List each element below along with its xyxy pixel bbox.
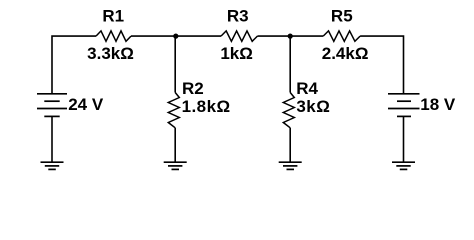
svg-text:24 V: 24 V	[68, 95, 104, 114]
svg-text:R3: R3	[227, 7, 249, 26]
wire top-right from R5 to V2	[360, 36, 403, 94]
wire V1 to ground	[51, 116, 53, 162]
ground under R2	[164, 162, 187, 169]
svg-text:1.8kΩ: 1.8kΩ	[182, 97, 231, 116]
svg-text:3kΩ: 3kΩ	[296, 97, 330, 116]
wire R3 to R5 through node B	[257, 35, 323, 37]
ground under V2	[392, 162, 415, 169]
wire V2 to ground	[403, 116, 405, 162]
resistor R4	[283, 93, 294, 128]
resistor R1	[96, 31, 131, 41]
node B junction dot	[288, 34, 293, 39]
wire top-left from V1 to R1	[52, 36, 96, 94]
svg-text:3.3kΩ: 3.3kΩ	[87, 44, 134, 63]
wire R2 to ground	[174, 128, 176, 162]
resistor R2	[168, 93, 179, 128]
svg-text:R5: R5	[331, 7, 353, 26]
wire R4 to ground	[289, 128, 291, 162]
svg-text:1kΩ: 1kΩ	[220, 44, 253, 63]
wire node A down to R2	[174, 36, 176, 92]
resistor R3	[221, 31, 257, 41]
ground under R4	[279, 162, 302, 169]
ground under V1	[41, 162, 64, 169]
battery V1 24 V	[37, 94, 67, 117]
node A junction dot	[173, 34, 178, 39]
svg-text:2.4kΩ: 2.4kΩ	[322, 44, 369, 63]
svg-text:R1: R1	[102, 7, 124, 26]
resistor R5	[323, 31, 360, 41]
battery V2 18 V	[388, 94, 420, 117]
wire R1 to R3 through node A	[131, 35, 221, 37]
svg-text:18 V: 18 V	[420, 95, 456, 114]
svg-text:R4: R4	[296, 79, 318, 98]
wire node B down to R4	[289, 36, 291, 92]
svg-text:R2: R2	[182, 79, 204, 98]
